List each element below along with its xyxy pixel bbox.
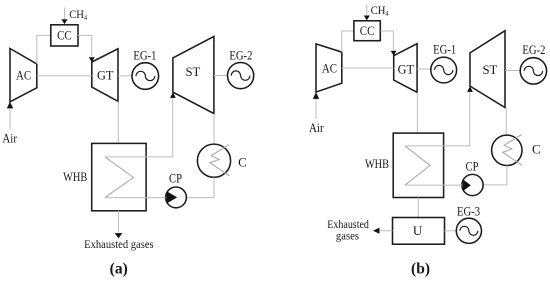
svg-text:U: U [413,223,423,238]
generator EG-1 (a) [132,48,159,90]
svg-text:Air: Air [309,120,324,135]
svg-text:CC: CC [57,27,72,42]
svg-text:EG-1: EG-1 [133,48,156,63]
svg-text:(b): (b) [411,260,430,277]
svg-text:EG-1: EG-1 [433,42,456,57]
combustion chamber CC (b) [354,21,380,41]
svg-text:EG-2: EG-2 [522,42,545,57]
svg-text:ST: ST [186,64,201,79]
wire: AC outlet to CC (a) [37,35,51,64]
compressor AC (a) [10,49,37,102]
svg-text:ST: ST [483,62,498,77]
wire: shaft U to EG-3 (b) [445,230,457,232]
wire: shaft ST to EG-2 (a) [214,75,228,77]
wire: feedwater CP to WHB (b) [405,184,462,186]
steam turbine ST (a) [173,36,214,113]
arrow: CH4 into CC (b) [364,16,370,21]
arrow: combustion gas into GT (b) [391,51,397,56]
svg-text:Air: Air [2,131,17,146]
wire: CC outlet to GT (a) [78,35,92,56]
steam turbine ST (b) [470,31,505,108]
generator EG-1 (b) [431,42,457,83]
svg-text:CC: CC [360,23,375,38]
wire: U to exhaust outlet (b) [379,230,392,232]
svg-text:(a): (a) [110,260,128,277]
label Exhausted gases (b) [327,219,369,242]
wire: AC outlet to CC (b) [342,31,354,52]
svg-text:C: C [238,154,247,169]
generator EG-3 (b) [456,203,481,243]
wire: WHB gas to U (b) [417,198,419,218]
svg-text:gases: gases [336,230,359,242]
svg-text:Exhausted gases: Exhausted gases [84,239,154,251]
arrow: combustion gas into GT (a) [89,57,95,62]
boiler WHB (a) [63,143,146,210]
svg-text:C: C [532,142,541,157]
wire: CH4 feed line (a) [64,8,66,20]
svg-text:WHB: WHB [63,169,87,184]
wire: shaft AC to GT (b) [342,67,394,69]
svg-text:AC: AC [322,61,337,76]
arrow: CH4 into CC (a) [62,19,68,24]
wire: CH4 feed line (b) [366,4,368,15]
wire: steam WHB to ST (a) [105,98,173,157]
boiler WHB (b) [365,133,444,197]
wire: CC outlet to GT (b) [381,31,394,50]
svg-text:CP: CP [169,171,182,186]
wire: steam WHB to ST (b) [405,92,470,146]
wire: ST exhaust steam to condenser (b) [505,108,507,136]
svg-text:GT: GT [97,68,113,83]
wire: GT exhaust gas to WHB (a) [117,101,119,143]
generator EG-2 (b) [520,42,546,84]
wire: feedwater CP to WHB (a) [105,197,166,199]
wire: shaft GT to EG-1 (b) [417,68,431,70]
combustion chamber CC (a) [51,25,78,46]
svg-text:WHB: WHB [365,156,389,171]
wire: ST exhaust steam to condenser (a) [213,114,215,145]
arrow: steam into ST (b) [467,86,473,92]
svg-text:Exhausted: Exhausted [327,219,369,231]
condenser C (a) [197,144,246,177]
turbine GT (a) [92,49,118,102]
wire: shaft ST to EG-2 (b) [505,70,520,72]
wire: air inlet line (b) [315,99,317,119]
svg-text:CP: CP [466,158,479,173]
svg-text:EG-3: EG-3 [457,203,480,218]
svg-text:AC: AC [16,67,31,82]
wire: air inlet line (a) [9,108,11,129]
pump CP (b) [462,158,483,195]
arrow: air into AC (b) [313,92,319,99]
arrow: air into AC (a) [7,102,13,109]
arrow: steam into ST (a) [170,92,176,98]
wire: GT exhaust gas to WHB (b) [416,92,418,133]
turbine GT (b) [394,44,417,93]
arrow: exhausted gases out (b) [373,228,379,234]
wire: shaft AC to GT (a) [37,75,92,77]
pump CP (a) [166,171,187,208]
svg-text:GT: GT [398,61,414,76]
generator EG-2 (a) [228,48,254,89]
wire: WHB to exhaust outlet (a) [118,211,120,233]
condenser C (b) [492,135,541,166]
svg-text:EG-2: EG-2 [229,48,252,63]
wire: shaft GT to EG-1 (a) [118,75,132,77]
wire: condensate C to CP (b) [483,166,507,185]
compressor AC (b) [316,44,342,92]
utilizer U (b) [393,218,445,245]
wire: condensate C to CP (a) [186,177,214,197]
arrow: exhausted gases out (a) [115,233,123,238]
